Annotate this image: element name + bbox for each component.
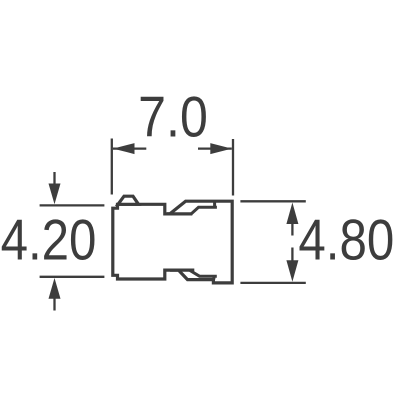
top lead underside line bbox=[167, 212, 192, 215]
4.20 upper arrow tail bbox=[53, 172, 55, 185]
dimension line 7.0 left segment bbox=[113, 147, 146, 149]
arrowhead 7.0 left bbox=[113, 143, 135, 154]
body outline bbox=[113, 201, 232, 283]
extension line right of 7.0 dim bbox=[232, 139, 234, 196]
bottom lead topside line bbox=[170, 269, 194, 272]
svg-text:4.20: 4.20 bbox=[1, 209, 97, 272]
4.20 lower arrowhead pointing up bbox=[49, 278, 61, 299]
index tab bump on top edge bbox=[118, 196, 139, 204]
extension line bottom of 4.20 dim bbox=[40, 276, 105, 278]
extension line bottom of 4.80 dim bbox=[240, 282, 305, 284]
svg-text:4.80: 4.80 bbox=[298, 209, 394, 272]
4.20 lower arrow tail bbox=[53, 299, 55, 311]
bottom lead inner bend line bbox=[190, 271, 217, 280]
top lead inner bend line bbox=[191, 202, 217, 215]
dimension line 7.0 right segment bbox=[198, 147, 232, 149]
extension line top of 4.80 dim bbox=[240, 200, 305, 202]
svg-text:7.0: 7.0 bbox=[138, 86, 208, 150]
arrowhead 7.0 right bbox=[210, 143, 232, 154]
4.80 upper tail bbox=[291, 224, 293, 236]
extension line left of 7.0 dim bbox=[111, 139, 113, 195]
extension line top of 4.20 dim bbox=[40, 204, 105, 206]
4.20 upper arrowhead pointing down bbox=[49, 184, 61, 205]
4.80 upper arrowhead pointing up bbox=[286, 203, 298, 225]
4.80 lower arrowhead pointing down bbox=[286, 260, 298, 282]
4.80 lower tail bbox=[291, 248, 293, 262]
